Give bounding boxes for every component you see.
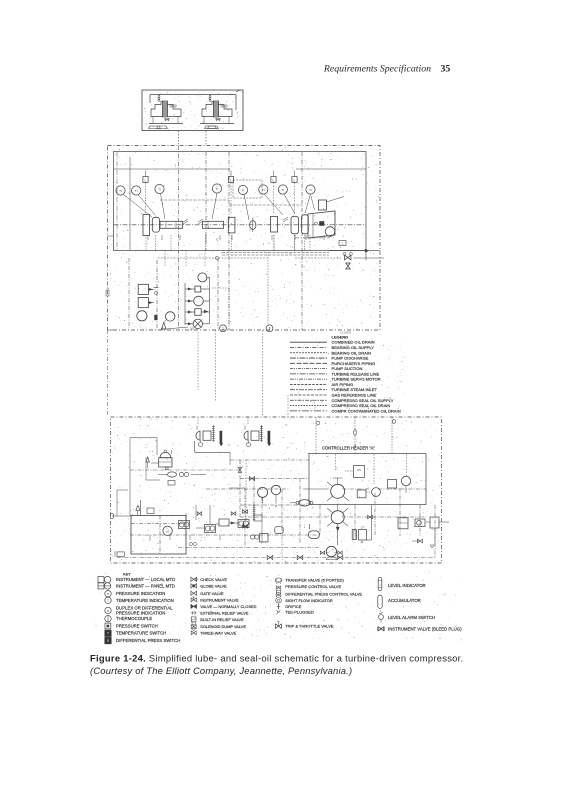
svg-text:LEVEL ALARM SWITCH: LEVEL ALARM SWITCH	[388, 615, 435, 620]
svg-text:CHECK VALVE: CHECK VALVE	[200, 577, 227, 582]
svg-text:TEE-PLUGGED: TEE-PLUGGED	[285, 610, 314, 615]
svg-text:T: T	[107, 632, 109, 636]
svg-text:M: M	[361, 540, 363, 544]
svg-text:EXTERNAL RELIEF VALVE: EXTERNAL RELIEF VALVE	[200, 610, 249, 615]
svg-text:TURBINE STEAM INLET: TURBINE STEAM INLET	[332, 387, 378, 392]
svg-text:TURBINE SERVO MOTOR: TURBINE SERVO MOTOR	[332, 377, 381, 382]
svg-text:INSTRUMENT VALVE (BLEED PLUG): INSTRUMENT VALVE (BLEED PLUG)	[388, 626, 462, 631]
svg-text:LEGEND: LEGEND	[332, 334, 349, 339]
svg-text:BEARING OIL SUPPLY: BEARING OIL SUPPLY	[332, 345, 375, 350]
svg-text:GAS REFERENCE LINE: GAS REFERENCE LINE	[332, 393, 377, 398]
svg-text:L: L	[273, 178, 275, 182]
svg-text:DIFFERENTIAL PRESS SWITCH: DIFFERENTIAL PRESS SWITCH	[116, 638, 180, 643]
svg-text:SS: SS	[357, 468, 361, 472]
svg-text:P: P	[107, 592, 109, 596]
svg-text:SOLENOID DUMP VALVE: SOLENOID DUMP VALVE	[200, 624, 246, 629]
svg-text:THERMOCOUPLE: THERMOCOUPLE	[116, 616, 152, 621]
svg-text:VALVE — NORMALLY CLOSED: VALVE — NORMALLY CLOSED	[200, 604, 256, 609]
svg-text:TEMPERATURE INDICATION: TEMPERATURE INDICATION	[116, 598, 174, 603]
svg-text:20: 20	[190, 327, 194, 331]
svg-text:INSTRUMENT VALVE: INSTRUMENT VALVE	[200, 597, 239, 602]
svg-text:PUMP DISCHARGE: PUMP DISCHARGE	[332, 356, 369, 361]
svg-text:1: 1	[222, 327, 224, 331]
svg-text:L: L	[145, 178, 147, 182]
svg-text:TI: TI	[158, 187, 161, 191]
svg-text:PRESSURE INDICATION: PRESSURE INDICATION	[116, 610, 165, 615]
svg-text:PUMP SUCTION: PUMP SUCTION	[332, 366, 363, 371]
svg-text:PRESSURE SWITCH: PRESSURE SWITCH	[116, 624, 158, 629]
svg-text:TRANSFER VALVE (6 PORTED): TRANSFER VALVE (6 PORTED)	[285, 578, 344, 583]
svg-text:GATE VALVE: GATE VALVE	[200, 591, 224, 596]
svg-text:GLOBE VALVE: GLOBE VALVE	[200, 583, 227, 588]
svg-text:TEMPERATURE SWITCH: TEMPERATURE SWITCH	[116, 631, 166, 636]
svg-text:TI: TI	[242, 188, 245, 192]
svg-text:PURCHASER'S PIPING: PURCHASER'S PIPING	[332, 361, 376, 366]
svg-text:KEY: KEY	[123, 573, 131, 577]
svg-text:COMPRESSO SEAL OIL SUPPLY: COMPRESSO SEAL OIL SUPPLY	[332, 398, 394, 403]
svg-text:PRESSURE CONTROL VALVE: PRESSURE CONTROL VALVE	[285, 584, 341, 589]
svg-text:PRESSURE INDICATION: PRESSURE INDICATION	[116, 591, 165, 596]
svg-text:DIFFERENTIAL PRESS CONTROL VAL: DIFFERENTIAL PRESS CONTROL VALVE	[285, 591, 362, 596]
svg-text:TI: TI	[119, 189, 122, 193]
svg-text:AIR PIPING: AIR PIPING	[332, 382, 354, 387]
svg-text:THREE-WAY VALVE: THREE-WAY VALVE	[200, 630, 236, 635]
svg-text:TURBINE RELEASE LINE: TURBINE RELEASE LINE	[332, 371, 380, 376]
svg-text:CONTROLLER HEADER “A”: CONTROLLER HEADER “A”	[322, 446, 375, 451]
svg-text:INSTRUMENT — LOCAL MTD: INSTRUMENT — LOCAL MTD	[116, 577, 175, 582]
svg-text:T: T	[107, 599, 109, 603]
svg-text:L: L	[294, 178, 296, 182]
svg-text:Figure 1-24. Simplified lube-: Figure 1-24. Simplified lube- and seal-o…	[90, 653, 463, 664]
svg-text:COMPR CONTAMINATED OIL DRAIN: COMPR CONTAMINATED OIL DRAIN	[332, 408, 401, 413]
svg-text:COMBINED OIL DRAIN: COMBINED OIL DRAIN	[332, 340, 375, 345]
svg-text::.: :.	[277, 619, 279, 622]
svg-text:BEARING OIL DRAIN: BEARING OIL DRAIN	[332, 350, 372, 355]
svg-text:8: 8	[269, 327, 271, 331]
svg-text:ORIFICE: ORIFICE	[285, 604, 302, 609]
svg-text:TRIP & THROTTLE VALVE: TRIP & THROTTLE VALVE	[285, 624, 334, 629]
svg-text:L: L	[230, 178, 232, 182]
svg-text:TI: TI	[262, 188, 265, 192]
svg-text:(Courtesy of The Elliott Compa: (Courtesy of The Elliott Company, Jeanne…	[90, 665, 352, 676]
svg-text:SIGHT FLOW INDICATOR: SIGHT FLOW INDICATOR	[285, 598, 333, 603]
svg-text:L: L	[342, 241, 344, 245]
svg-text:TI: TI	[281, 188, 284, 192]
svg-text:Requirements Specification: Requirements Specification	[323, 64, 431, 75]
svg-text:ACCUMULATOR: ACCUMULATOR	[388, 598, 421, 603]
svg-text:LEVEL INDICATOR: LEVEL INDICATOR	[388, 583, 426, 588]
svg-text:TI: TI	[135, 189, 138, 193]
svg-text:BUILT-IN RELIEF VALVE: BUILT-IN RELIEF VALVE	[200, 617, 244, 622]
svg-text:TI: TI	[309, 188, 312, 192]
svg-text:35: 35	[441, 64, 451, 75]
svg-text:TI: TI	[216, 187, 219, 191]
svg-text:INSTRUMENT — PANEL MTD: INSTRUMENT — PANEL MTD	[116, 583, 175, 588]
svg-text:LG: LG	[166, 529, 170, 533]
